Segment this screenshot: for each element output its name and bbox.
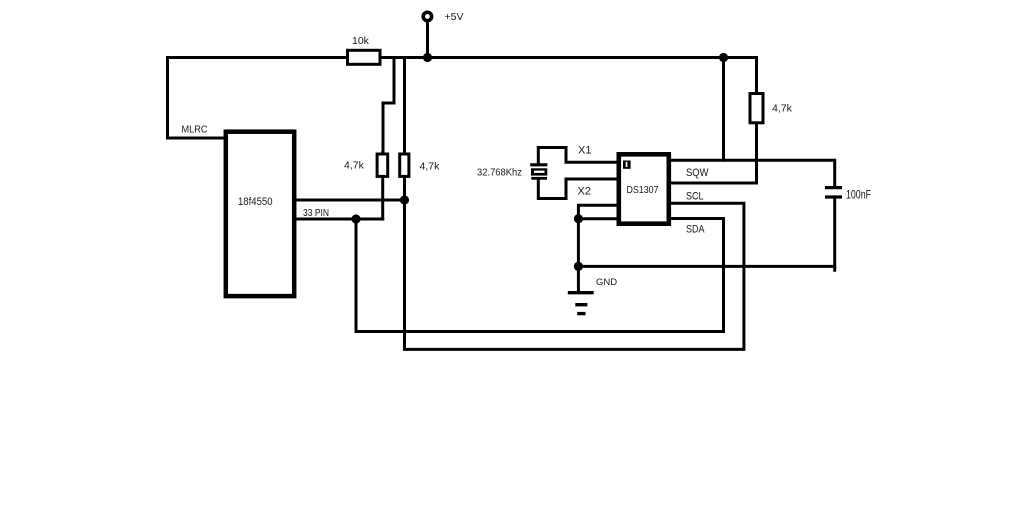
wire DS1307 gnd pin lower — [578, 217, 618, 220]
svg-text:GND: GND — [596, 277, 617, 288]
resistor R1 10k — [348, 50, 381, 64]
svg-text:33 PIN: 33 PIN — [303, 207, 329, 219]
junction dot at +5V tap — [423, 53, 432, 62]
svg-text:4,7k: 4,7k — [420, 161, 441, 173]
wire jog to left 4,7k top — [383, 58, 394, 153]
wire SDA net — [356, 219, 724, 332]
svg-text:SQW: SQW — [686, 167, 709, 179]
wire +5V tap — [426, 21, 429, 58]
svg-text:SDA: SDA — [686, 224, 705, 236]
junction dot SDA/pin line — [351, 214, 360, 223]
svg-text:18f4550: 18f4550 — [238, 196, 273, 208]
svg-text:10k: 10k — [352, 35, 370, 47]
pin 1 marker DS1307 — [623, 161, 631, 169]
resistor R2 4,7k left — [377, 154, 388, 176]
ground symbol — [568, 266, 594, 313]
svg-text:100nF: 100nF — [846, 188, 871, 202]
wire X2 from crystal bottom — [538, 179, 618, 199]
wire DS1307 gnd pin upper — [578, 205, 618, 266]
junction dot SCL/pin line — [400, 195, 409, 204]
wire 18f4550 pin line 1 — [296, 199, 405, 202]
svg-text:DS1307: DS1307 — [627, 184, 659, 196]
wire Vcc pin line to 100nF top — [671, 160, 835, 186]
svg-text:X1: X1 — [578, 145, 591, 157]
resistor R3 4,7k right — [400, 154, 409, 176]
svg-text:MLRC: MLRC — [182, 125, 208, 136]
crystal Y1 32.768Khz — [530, 165, 547, 179]
svg-text:X2: X2 — [578, 186, 591, 198]
IC U1 18f4550 — [226, 132, 294, 296]
wire +5V junction down to Vcc pin line — [722, 58, 725, 161]
capacitor C1 100nF — [825, 188, 842, 197]
terminal +5V — [423, 12, 431, 20]
svg-text:4,7k: 4,7k — [772, 103, 793, 115]
svg-text:+5V: +5V — [445, 11, 464, 23]
resistor R4 4,7k pullup SQW — [750, 94, 763, 123]
wire ground rail — [578, 265, 834, 268]
wire top rail from MLRC corner through 10k to right 4,7k then SQW — [168, 58, 757, 184]
junction dot gnd pins — [574, 214, 583, 223]
wire right 4,7k leads down to SCL net — [405, 58, 744, 350]
svg-text:32.768Khz: 32.768Khz — [477, 167, 522, 179]
svg-text:4,7k: 4,7k — [344, 160, 365, 172]
wire 18f4550 pin line 2 — [296, 218, 383, 221]
junction dot gnd rail — [574, 262, 583, 271]
wire X1 from crystal top — [538, 148, 618, 165]
IC U2 DS1307 — [619, 154, 669, 223]
wire left 4,7k bottom lead — [381, 153, 384, 220]
junction dot top rail right — [719, 53, 728, 62]
wire 100nF bottom lead — [833, 199, 836, 271]
svg-text:SCL: SCL — [686, 191, 704, 203]
